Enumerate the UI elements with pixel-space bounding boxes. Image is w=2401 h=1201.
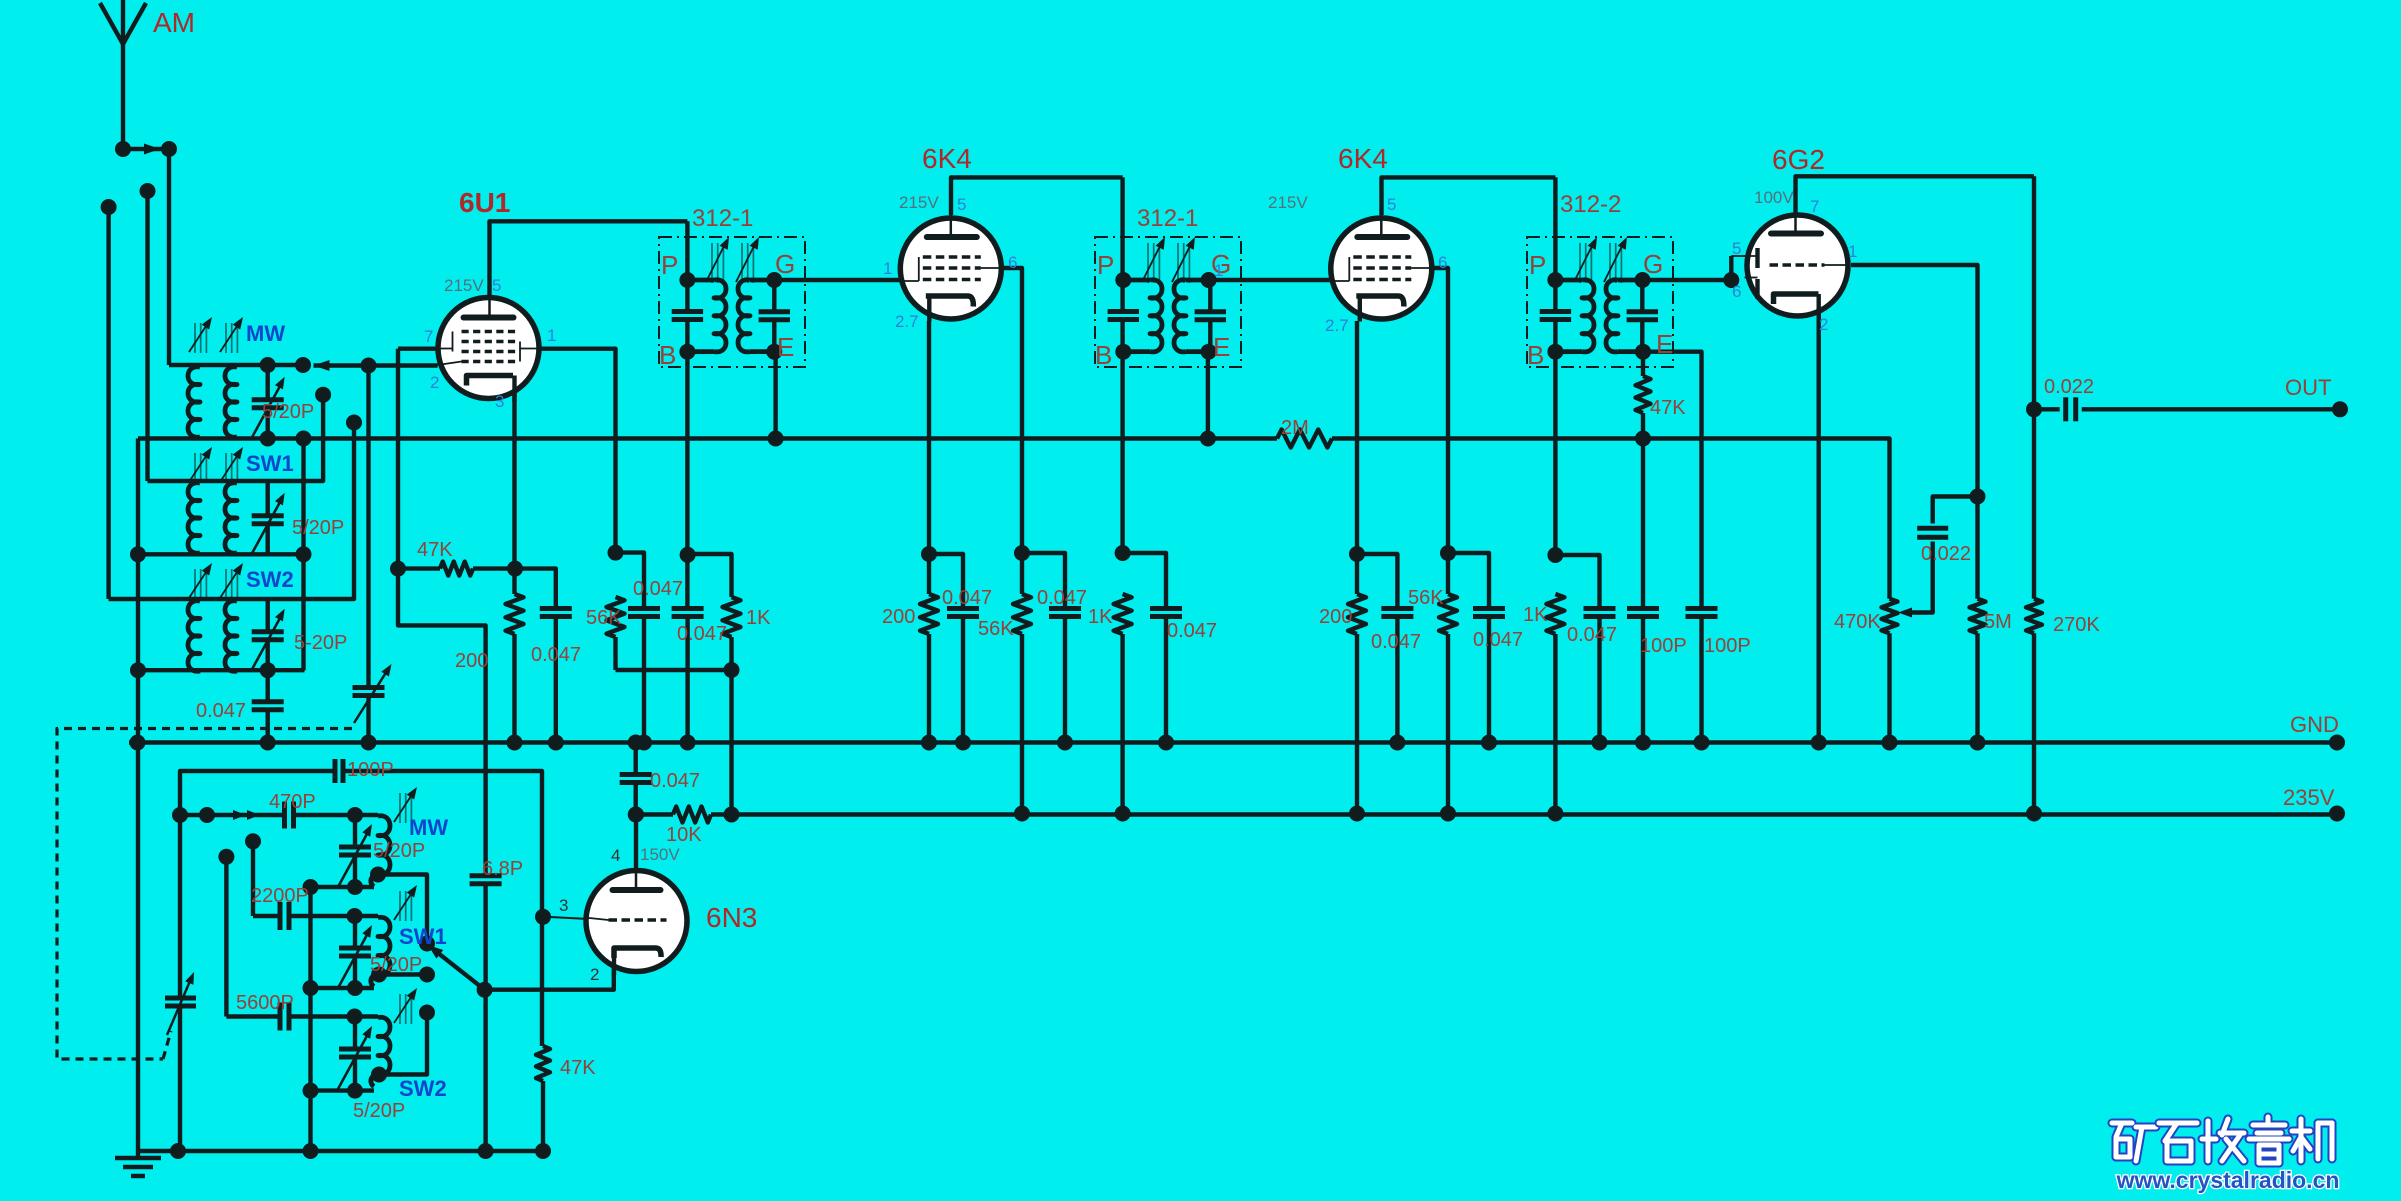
svg-text:www.crystalradio.cn: www.crystalradio.cn — [2116, 1167, 2340, 1193]
svg-text:5/20P: 5/20P — [262, 401, 314, 423]
svg-text:6: 6 — [1732, 282, 1741, 301]
svg-text:P: P — [1529, 250, 1546, 280]
svg-text:5/20P: 5/20P — [292, 517, 344, 539]
svg-text:1K: 1K — [746, 607, 771, 629]
svg-text:5/20P: 5/20P — [370, 954, 422, 976]
svg-text:270K: 270K — [2053, 614, 2100, 636]
svg-text:5: 5 — [1732, 239, 1741, 258]
svg-text:200: 200 — [882, 606, 915, 628]
svg-text:312-2: 312-2 — [1560, 191, 1621, 218]
svg-text:0.047: 0.047 — [196, 700, 246, 722]
svg-text:6U1: 6U1 — [459, 187, 510, 218]
svg-text:5: 5 — [957, 195, 966, 214]
svg-text:2200P: 2200P — [251, 885, 309, 907]
svg-text:215V: 215V — [899, 193, 939, 212]
svg-text:G: G — [1643, 249, 1663, 279]
svg-text:6.8P: 6.8P — [482, 858, 523, 880]
svg-text:6N3: 6N3 — [706, 902, 757, 933]
svg-text:1K: 1K — [1088, 606, 1113, 628]
svg-text:56K: 56K — [586, 607, 622, 629]
svg-text:0.047: 0.047 — [650, 770, 700, 792]
svg-text:5M: 5M — [1984, 611, 2012, 633]
svg-text:E: E — [777, 332, 794, 362]
svg-text:OUT: OUT — [2285, 375, 2331, 400]
svg-text:2: 2 — [430, 373, 439, 392]
svg-text:E: E — [1213, 332, 1230, 362]
svg-text:2.7: 2.7 — [895, 312, 919, 331]
svg-text:100P: 100P — [1640, 635, 1687, 657]
svg-text:SW2: SW2 — [246, 567, 294, 592]
svg-text:6G2: 6G2 — [1772, 144, 1825, 175]
svg-text:1K: 1K — [1523, 604, 1548, 626]
svg-text:470P: 470P — [269, 791, 316, 813]
svg-text:0.047: 0.047 — [633, 578, 683, 600]
svg-text:0.047: 0.047 — [1167, 620, 1217, 642]
svg-text:100P: 100P — [347, 759, 394, 781]
svg-text:E: E — [1656, 329, 1673, 359]
svg-text:SW2: SW2 — [399, 1076, 447, 1101]
svg-text:1: 1 — [883, 259, 892, 278]
svg-text:5: 5 — [492, 276, 501, 295]
svg-text:200: 200 — [455, 650, 488, 672]
svg-text:47K: 47K — [417, 539, 453, 561]
svg-text:SW1: SW1 — [399, 924, 447, 949]
svg-text:0.047: 0.047 — [1567, 624, 1617, 646]
svg-text:6K4: 6K4 — [1338, 143, 1388, 174]
svg-text:0.047: 0.047 — [942, 587, 992, 609]
svg-text:G: G — [775, 249, 795, 279]
svg-text:3: 3 — [495, 392, 504, 411]
svg-text:5: 5 — [1387, 195, 1396, 214]
svg-text:0.047: 0.047 — [1037, 587, 1087, 609]
svg-text:0.022: 0.022 — [1921, 543, 1971, 565]
svg-text:B: B — [659, 340, 676, 370]
svg-text:2: 2 — [1819, 315, 1828, 334]
svg-text:200: 200 — [1319, 606, 1352, 628]
svg-text:0.047: 0.047 — [1473, 629, 1523, 651]
svg-text:312-1: 312-1 — [692, 205, 753, 232]
svg-text:0.047: 0.047 — [1371, 631, 1421, 653]
svg-text:4: 4 — [611, 846, 620, 865]
svg-text:P: P — [661, 250, 678, 280]
svg-text:MW: MW — [246, 321, 285, 346]
svg-text:MW: MW — [409, 815, 448, 840]
svg-text:56K: 56K — [978, 618, 1014, 640]
svg-text:0.022: 0.022 — [2044, 376, 2094, 398]
svg-text:215V: 215V — [1268, 193, 1308, 212]
svg-text:100P: 100P — [1704, 635, 1751, 657]
svg-text:150V: 150V — [640, 845, 680, 864]
svg-text:2.7: 2.7 — [1325, 316, 1349, 335]
svg-text:6K4: 6K4 — [922, 143, 972, 174]
svg-text:3: 3 — [559, 896, 568, 915]
svg-text:215V: 215V — [444, 276, 484, 295]
svg-text:P: P — [1097, 250, 1114, 280]
svg-text:235V: 235V — [2283, 785, 2335, 810]
svg-text:5/20P: 5/20P — [353, 1100, 405, 1122]
svg-text:0.047: 0.047 — [677, 623, 727, 645]
svg-text:1: 1 — [1848, 242, 1857, 261]
svg-text:100V: 100V — [1754, 188, 1794, 207]
svg-text:56K: 56K — [1408, 587, 1444, 609]
svg-text:7: 7 — [424, 327, 433, 346]
svg-text:47K: 47K — [1650, 397, 1686, 419]
svg-text:470K: 470K — [1834, 611, 1881, 633]
svg-text:5-20P: 5-20P — [294, 632, 347, 654]
svg-text:2: 2 — [590, 965, 599, 984]
svg-text:47K: 47K — [560, 1057, 596, 1079]
svg-text:2M: 2M — [1281, 417, 1309, 439]
svg-text:312-1: 312-1 — [1137, 205, 1198, 232]
svg-text:5600P: 5600P — [236, 992, 294, 1014]
svg-text:B: B — [1527, 340, 1544, 370]
svg-text:7: 7 — [1810, 197, 1819, 216]
svg-text:6: 6 — [1008, 253, 1017, 272]
svg-text:B: B — [1095, 340, 1112, 370]
svg-text:GND: GND — [2290, 712, 2339, 737]
svg-text:10K: 10K — [666, 824, 702, 846]
svg-text:1: 1 — [547, 326, 556, 345]
svg-text:5/20P: 5/20P — [373, 840, 425, 862]
svg-text:6: 6 — [1438, 253, 1447, 272]
svg-text:1: 1 — [1214, 261, 1223, 280]
svg-text:AM: AM — [153, 7, 195, 38]
svg-text:SW1: SW1 — [246, 451, 294, 476]
svg-text:0.047: 0.047 — [531, 644, 581, 666]
